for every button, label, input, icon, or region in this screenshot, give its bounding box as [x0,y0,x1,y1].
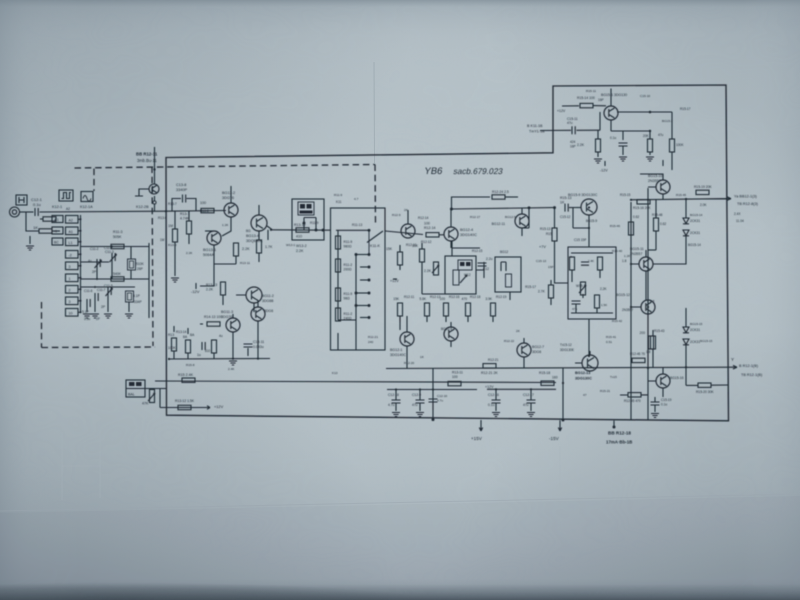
svg-text:C11-7: C11-7 [97,288,106,292]
svg-text:100K: 100K [676,143,684,147]
svg-text:TB R12-8(3): TB R12-8(3) [737,202,759,206]
svg-text:R11-13: R11-13 [352,223,362,227]
svg-text:BG15-14: BG15-14 [688,243,701,247]
svg-text:R15-8: R15-8 [186,363,195,367]
svg-text:R15-14 100: R15-14 100 [577,96,595,100]
svg-text:BG12-11: BG12-11 [492,222,505,226]
svg-text:C11-3: C11-3 [104,246,113,250]
svg-text:960Ω: 960Ω [344,245,353,249]
svg-text:R13-13: R13-13 [206,283,217,287]
svg-text:3DG6B: 3DG6B [262,299,274,303]
svg-text:3: 3 [69,265,71,269]
svg-text:470: 470 [462,297,468,301]
svg-text:100: 100 [440,297,446,301]
svg-text:47u: 47u [658,133,664,137]
svg-text:240Ω: 240Ω [344,317,353,321]
svg-text:BG15-10: BG15-10 [648,174,662,178]
svg-text:R12-14: R12-14 [418,216,429,220]
svg-text:BG15-15: BG15-15 [690,322,703,326]
svg-text:R15-46: R15-46 [610,224,620,228]
svg-text:R15 2.4K: R15 2.4K [178,373,194,377]
svg-text:2.4X: 2.4X [734,212,741,216]
svg-text:5.1P: 5.1P [82,310,90,314]
svg-text:100: 100 [424,222,430,226]
svg-text:R11-2: R11-2 [344,312,353,316]
svg-text:A2: A2 [66,207,70,211]
svg-text:+7V: +7V [539,245,546,249]
svg-text:1: 1 [69,277,71,281]
svg-text:2.2K: 2.2K [296,249,304,253]
svg-text:3mb.Bu-11: 3mb.Bu-11 [137,158,157,163]
svg-text:BG15-9: BG15-9 [586,219,597,223]
svg-text:2.2K: 2.2K [206,288,214,292]
svg-text:160: 160 [552,375,558,379]
svg-text:K12-1: K12-1 [52,205,62,209]
svg-text:15K: 15K [386,247,393,251]
svg-text:5064A: 5064A [203,253,214,257]
svg-text:R12-10: R12-10 [406,243,417,247]
svg-text:R12-24 2.5: R12-24 2.5 [492,190,509,194]
svg-text:R13-6: R13-6 [158,216,167,220]
svg-text:4.1: 4.1 [54,218,59,222]
svg-text:47K: 47K [142,402,149,406]
svg-text:3DG130C: 3DG130C [575,377,592,381]
svg-text:R15-18: R15-18 [539,371,550,375]
svg-text:R12-14: R12-14 [424,226,436,230]
svg-text:C15-10: C15-10 [640,94,650,98]
svg-text:R15-11: R15-11 [586,89,596,93]
svg-text:47: 47 [583,393,587,397]
svg-text:R11-9: R11-9 [344,292,353,296]
svg-text:BB R12-18: BB R12-18 [608,431,631,436]
svg-text:810: 810 [205,349,211,353]
svg-text:510K: 510K [136,262,145,266]
svg-text:C13-11: C13-11 [253,340,264,344]
svg-text:2.4K: 2.4K [588,259,594,263]
svg-text:20K: 20K [643,134,650,138]
svg-text:BG12: BG12 [500,250,508,254]
svg-text:C15-13: C15-13 [536,259,546,263]
svg-text:C15-19: C15-19 [661,398,672,402]
svg-text:1K: 1K [560,201,565,205]
svg-text:R12-15: R12-15 [472,249,483,253]
svg-text:R15-21: R15-21 [600,389,610,393]
svg-text:100: 100 [200,201,206,205]
svg-text:BG12-1: BG12-1 [390,348,402,352]
svg-text:R11-9: R11-9 [344,240,353,244]
svg-text:240: 240 [368,340,373,344]
svg-text:R15-16 20K: R15-16 20K [633,206,651,210]
svg-text:424: 424 [570,140,576,144]
svg-text:K13: K13 [332,371,338,375]
svg-text:R12-46 76: R12-46 76 [630,352,645,356]
svg-text:R11-2: R11-2 [344,263,353,267]
svg-text:47u: 47u [523,403,529,407]
svg-text:C12-16: C12-16 [488,393,499,397]
svg-text:C12-10: C12-10 [437,394,447,398]
svg-text:+12V: +12V [390,279,399,283]
svg-text:YB6: YB6 [423,166,443,177]
svg-text:-2: -2 [69,253,72,257]
svg-text:3DG6: 3DG6 [264,309,273,313]
svg-text:R15-17: R15-17 [525,285,536,289]
svg-text:2.2K: 2.2K [242,247,250,251]
svg-text:0.1u: 0.1u [661,403,667,407]
svg-text:4.7u: 4.7u [388,403,395,407]
svg-text:BAL: BAL [128,393,135,397]
svg-text:R15-19 20K: R15-19 20K [694,185,712,189]
svg-text:0.1u: 0.1u [488,403,495,407]
svg-text:R15-15: R15-15 [620,193,631,197]
svg-text:100: 100 [452,375,458,379]
svg-text:17mA·Bb-1B: 17mA·Bb-1B [606,440,632,445]
svg-text:1.8: 1.8 [650,299,655,303]
svg-text:R13-10: R13-10 [294,223,306,227]
svg-text:2.2K: 2.2K [186,251,193,255]
svg-text:B R12-1(B): B R12-1(B) [739,364,759,368]
svg-text:BG15-15: BG15-15 [700,339,713,343]
svg-text:C12-9: C12-9 [412,393,421,397]
svg-text:4u: 4u [88,259,92,263]
svg-text:C11-2: C11-2 [90,247,99,251]
svg-text:B K11-1B: B K11-1B [527,124,543,128]
svg-text:BG: BG [246,229,251,233]
svg-text:+12V: +12V [557,109,566,113]
svg-text:Tx15: Tx15 [610,375,617,379]
svg-text:3DG76: 3DG76 [222,196,234,200]
svg-text:2P: 2P [101,305,106,309]
svg-text:R13-7: R13-7 [180,212,190,216]
svg-text:BB R12-11: BB R12-11 [136,152,158,157]
svg-text:505K: 505K [113,235,122,239]
svg-text:R15-42: R15-42 [612,319,622,323]
svg-text:BG15-2: BG15-2 [662,119,673,123]
svg-text:2.2K: 2.2K [600,287,607,291]
svg-text:R13-12 1.5K: R13-12 1.5K [175,399,195,403]
svg-text:2CK31: 2CK31 [690,219,700,223]
svg-text:10: 10 [69,311,73,315]
svg-text:R15-41: R15-41 [606,335,616,339]
svg-text:R15-40: R15-40 [612,249,622,253]
svg-text:-12V: -12V [600,169,608,173]
svg-text:R13: R13 [168,333,174,337]
svg-text:3.3u: 3.3u [84,317,90,321]
svg-text:96Ω: 96Ω [344,297,351,301]
svg-text:1.7K: 1.7K [265,245,273,249]
svg-text:R15-20 30K: R15-20 30K [696,390,714,394]
svg-text:4.7u: 4.7u [437,399,443,403]
svg-text:1.8: 1.8 [646,350,651,354]
svg-text:BG12-5: BG12-5 [505,215,516,219]
svg-text:R12-12: R12-12 [421,240,432,244]
svg-text:W15-1: W15-1 [576,284,586,288]
svg-text:200Ω: 200Ω [344,268,353,272]
svg-text:BG15-14: BG15-14 [690,213,703,217]
svg-text:R12-17: R12-17 [470,215,480,219]
svg-text:K12-1A: K12-1A [80,205,93,209]
svg-text:A1: A1 [69,230,73,234]
svg-text:R13-14: R13-14 [176,330,187,334]
svg-text:4.1P: 4.1P [133,294,141,298]
svg-text:2.0K: 2.0K [700,203,707,207]
svg-text:1u: 1u [197,353,201,357]
svg-text:K11: K11 [336,200,342,204]
svg-text:R11-21: R11-21 [368,335,378,339]
svg-text:1.5K: 1.5K [601,303,607,307]
svg-text:R15-43: R15-43 [654,329,665,333]
svg-text:BG12-4: BG12-4 [441,327,452,331]
svg-text:4.74K: 4.74K [180,217,190,221]
svg-text:R11-9: R11-9 [310,221,319,225]
svg-text:BG11-2: BG11-2 [262,294,274,298]
svg-text:R13-11: R13-11 [452,371,463,375]
svg-text:2.2K: 2.2K [577,143,585,147]
svg-text:0.51: 0.51 [606,340,612,344]
svg-text:K12-2B: K12-2B [136,205,149,209]
svg-text:BG13-1: BG13-1 [203,248,216,252]
svg-text:3DG140C: 3DG140C [460,233,477,237]
svg-text:3.9K: 3.9K [485,297,492,301]
svg-text:BG15-1 3DG130: BG15-1 3DG130 [601,93,627,97]
svg-text:C13-8: C13-8 [176,183,186,187]
svg-text:R12-19: R12-19 [496,295,507,299]
svg-text:BC: BC [54,240,59,244]
svg-text:2N3557: 2N3557 [648,179,661,183]
svg-text:BG15-11: BG15-11 [630,247,644,251]
svg-text:3: 3 [69,300,71,304]
svg-text:R12-11: R12-11 [404,295,414,299]
svg-text:R15-17: R15-17 [680,107,691,111]
svg-text:5.6K: 5.6K [419,297,426,301]
svg-text:540K: 540K [113,272,122,276]
svg-text:L1: L1 [69,241,73,245]
svg-text:Tx15-12: Tx15-12 [560,343,572,347]
svg-text:R15-45: R15-45 [676,193,686,197]
svg-text:R12-16: R12-16 [449,295,460,299]
svg-text:W13-1: W13-1 [286,243,295,247]
svg-text:BG12-4: BG12-4 [460,228,473,232]
svg-text:R14-13 100: R14-13 100 [204,315,222,319]
svg-text:C12: C12 [483,267,489,271]
svg-text:C11-6: C11-6 [84,289,93,293]
svg-text:15P: 15P [548,265,554,269]
svg-text:BG15-9 3DG130C: BG15-9 3DG130C [568,193,598,197]
svg-text:R13-9: R13-9 [168,243,177,247]
svg-text:47u: 47u [412,403,418,407]
svg-text:BG15-12: BG15-12 [616,293,630,297]
svg-text:1.2K: 1.2K [624,254,631,258]
svg-text:BG13-4: BG13-4 [246,234,259,238]
svg-text:-1: -1 [54,229,57,233]
svg-text:R12-21 2K: R12-21 2K [481,371,498,375]
svg-text:1M: 1M [168,224,173,228]
svg-text:1.2K: 1.2K [222,223,229,227]
svg-text:47u: 47u [567,121,573,125]
svg-text:1M: 1M [160,238,165,242]
svg-text:3DG140C: 3DG140C [390,353,406,357]
svg-text:0.62: 0.62 [660,222,666,226]
svg-text:TmY1-1B: TmY1-1B [529,130,545,134]
svg-text:W13-2: W13-2 [296,244,307,248]
svg-text:R12-9: R12-9 [392,213,401,217]
svg-text:+12V: +12V [485,385,494,389]
svg-text:2.2K: 2.2K [424,269,432,273]
svg-text:+15V: +15V [471,436,483,441]
svg-text:4.7: 4.7 [354,197,359,201]
svg-text:C15 15P: C15 15P [574,238,586,242]
svg-text:R13-11: R13-11 [240,261,250,265]
svg-text:R13-7: R13-7 [168,202,177,206]
svg-text:R15: R15 [546,232,552,236]
svg-text:R12-20: R12-20 [404,361,414,365]
svg-text:Ya BB12-1(3): Ya BB12-1(3) [734,195,757,199]
svg-text:2N3557: 2N3557 [622,308,633,312]
svg-text:R12-21: R12-21 [488,358,499,362]
svg-text:16P: 16P [598,98,604,102]
svg-text:C11-3: C11-3 [105,250,114,254]
svg-text:-15V: -15V [549,436,560,441]
svg-text:2P: 2P [96,317,100,321]
svg-text:R12-18: R12-18 [470,295,481,299]
svg-text:R12-13: R12-13 [430,295,441,299]
svg-text:R12-45 470: R12-45 470 [624,399,641,403]
svg-text:2.7K: 2.7K [538,290,546,294]
svg-text:W12: W12 [464,273,471,277]
svg-text:3DG130E: 3DG130E [560,348,574,352]
svg-text:TB R12-1(B): TB R12-1(B) [741,373,763,377]
svg-text:47u: 47u [572,307,577,311]
svg-text:R15-48: R15-48 [652,213,663,217]
svg-text:-12V: -12V [191,289,200,294]
svg-text:2: 2 [69,288,71,292]
svg-text:R11-9: R11-9 [334,193,342,197]
svg-text:C12-17: C12-17 [523,393,534,397]
svg-text:1K: 1K [33,225,38,230]
svg-text:BG15-16: BG15-16 [670,376,684,380]
svg-text:sacb.679.023: sacb.679.023 [453,166,505,176]
svg-text:R11-3: R11-3 [113,230,123,234]
svg-text:334P: 334P [134,300,143,304]
svg-text:3340P: 3340P [176,188,187,192]
svg-text:1.8: 1.8 [622,259,627,263]
svg-text:0.1u: 0.1u [610,136,616,140]
svg-text:BG13-2: BG13-2 [222,191,235,195]
svg-text:C15-12: C15-12 [560,215,571,219]
svg-text:BG12-7: BG12-7 [532,345,544,349]
svg-text:200: 200 [640,331,646,335]
svg-text:R15-13: R15-13 [540,227,551,231]
svg-text:2CK31: 2CK31 [690,328,700,332]
svg-text:26P: 26P [137,267,144,271]
svg-text:R13-8: R13-8 [200,209,209,213]
svg-text:100K: 100K [168,346,177,350]
svg-text:2P: 2P [92,270,97,274]
svg-text:3DG6: 3DG6 [532,350,541,354]
svg-text:11.04: 11.04 [736,219,744,223]
svg-text:3DG76: 3DG76 [221,315,232,319]
svg-text:3DQ630K: 3DQ630K [246,239,263,243]
svg-text:R12-22: R12-22 [504,339,514,343]
svg-text:16P: 16P [570,145,576,149]
svg-text:+12V: +12V [214,404,224,409]
svg-text:BG11-3: BG11-3 [221,310,233,314]
svg-text:K11-K: K11-K [370,244,381,248]
svg-text:C12-18: C12-18 [388,393,399,397]
svg-text:Y: Y [731,357,734,362]
svg-text:0.043u: 0.043u [253,345,264,349]
svg-text:2.2u: 2.2u [486,257,493,261]
svg-text:0.62: 0.62 [633,215,639,219]
svg-text:2CK31: 2CK31 [690,231,700,235]
svg-text:BG12-13: BG12-13 [575,371,590,375]
svg-text:410: 410 [296,235,302,239]
svg-text:4u: 4u [219,334,223,338]
svg-text:0.1u: 0.1u [33,202,41,207]
svg-text:2CK31: 2CK31 [690,340,700,344]
svg-text:2.4K: 2.4K [228,367,235,371]
svg-text:A2: A2 [69,218,73,222]
svg-text:15K: 15K [393,297,400,301]
svg-text:2N3557: 2N3557 [630,252,642,256]
